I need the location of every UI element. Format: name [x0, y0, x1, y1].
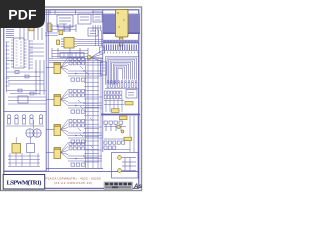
wire module 4 links [46, 150, 102, 161]
wire left verticals 2 [36, 60, 44, 95]
wire Q1 fanout [61, 58, 69, 74]
wire mid links [52, 48, 88, 58]
wire diagonal jogs [78, 60, 93, 148]
IC U3 logic block [78, 14, 91, 24]
wire D1 fan [91, 50, 103, 62]
sub box bottom-left [4, 112, 46, 172]
wire Q3 fanout [61, 120, 69, 136]
resistor cluster module 4 [69, 143, 85, 150]
capacitor row module 4 [71, 163, 85, 166]
wire bl top [8, 96, 46, 104]
wire bottom bus [46, 168, 103, 170]
wire left rail [7, 42, 14, 92]
wire Q2 fanout [61, 90, 69, 106]
wire left verticals [20, 28, 42, 40]
logo mark [133, 184, 142, 190]
wire left rungs [8, 44, 44, 91]
svg-text:Aɢ: Aɢ [133, 184, 142, 190]
IC U5 block [88, 28, 98, 36]
sub box right [112, 153, 139, 179]
IC U8 small [126, 90, 137, 99]
wire band row [103, 40, 139, 43]
capacitor C4 (yellow) [57, 40, 60, 45]
resistor R1 [7, 71, 45, 74]
capacitor C14 [39, 115, 42, 124]
capacitor bank row1 [104, 91, 122, 99]
wire bl mid [6, 125, 44, 127]
resistor R4 [10, 92, 40, 95]
capacitor row module 2 [71, 110, 85, 113]
small parts cluster A [104, 121, 126, 131]
capacitor C6 (yellow) [125, 102, 133, 105]
title block LSPWM(TR1) [3, 175, 45, 190]
resistor R5 [64, 28, 70, 31]
capacitor C7 (yellow) [112, 109, 120, 113]
bus harness [106, 57, 139, 85]
capacitor C9 (yellow) [124, 137, 132, 140]
IC U1 [11, 38, 27, 68]
wire main vertical rails [46, 10, 103, 171]
diode D1 (yellow) [88, 56, 91, 59]
capacitor row module 1 [71, 78, 85, 81]
wire U4 fanout right [77, 40, 103, 46]
net labels margin [6, 42, 10, 86]
resistor R2 [7, 75, 41, 78]
diode D3 (yellow) [121, 130, 124, 133]
svg-text:PDF: PDF [8, 6, 37, 22]
capacitor C8 (yellow) [120, 116, 128, 120]
wire module 1 links [46, 65, 102, 76]
svg-text:(05.A2.NWNCS05.00): (05.A2.NWNCS05.00) [54, 181, 92, 185]
resistor cluster module 2 [69, 90, 85, 97]
capacitor row module 3 [71, 140, 85, 143]
capacitor C2 (yellow) [48, 23, 51, 32]
wire module 3 links [46, 127, 102, 138]
wire upper mid [45, 30, 102, 46]
IC U2 control block [57, 15, 73, 27]
resistor cluster module 1 [69, 58, 85, 65]
IC U10 small [27, 144, 35, 153]
LED D5 (yellow) [118, 169, 122, 173]
IC U4 (yellow) [61, 38, 77, 49]
capacitor C5 (yellow stub) [119, 38, 123, 46]
diode D2 (yellow) [117, 125, 120, 128]
PDF badge [0, 0, 45, 28]
IC U6 (yellow DIP) [116, 10, 129, 38]
power bus VCC [101, 114, 140, 116]
connector J2 [93, 12, 102, 22]
capacitor C3 (yellow) [59, 31, 63, 35]
optocoupler U9 (yellow) [12, 144, 21, 154]
trimmer row VR1-VR9 [105, 80, 139, 88]
wire top-mid links [52, 24, 76, 32]
net label column [29, 40, 33, 70]
highlight band [103, 14, 141, 35]
IC U7 small [100, 47, 107, 75]
revision table [104, 182, 133, 189]
wire mid-right links [104, 99, 138, 152]
wire mid bundle [49, 59, 103, 63]
LED D4 (yellow) [118, 156, 122, 160]
resistor cluster module 3 [69, 120, 85, 127]
resistor network RN0 [60, 53, 84, 58]
pin labels U1 [16, 41, 23, 66]
resistor R3 [7, 89, 47, 92]
net labels left column [6, 30, 14, 38]
wire bl ladder [8, 137, 40, 166]
svg-text:LSPWM(TR1): LSPWM(TR1) [7, 179, 42, 186]
wire top bus [45, 10, 103, 15]
title text center [46, 177, 101, 186]
electrolytic capacitors C10-C13 [7, 115, 33, 124]
svg-text:PLACA LSPWM(TR) - 4023 - 05200: PLACA LSPWM(TR) - 4023 - 05200 [46, 177, 101, 181]
small parts cluster B [104, 139, 130, 150]
net stubs ladder [84, 58, 101, 168]
transistor Q3 (yellow) [54, 125, 61, 136]
transistor Q2 (yellow) [54, 95, 61, 106]
wire Q4 fanout [61, 143, 69, 159]
capacitor C1 (yellow) [29, 27, 34, 31]
wire module 2 links [46, 97, 102, 108]
connector J3 pin comb [103, 44, 138, 53]
transformer T1 [26, 120, 41, 137]
net marks top right gap [92, 25, 102, 31]
wire right box [122, 158, 136, 171]
transistor Q1 (yellow) [54, 63, 61, 74]
transistor Q4 (yellow) [54, 148, 61, 159]
